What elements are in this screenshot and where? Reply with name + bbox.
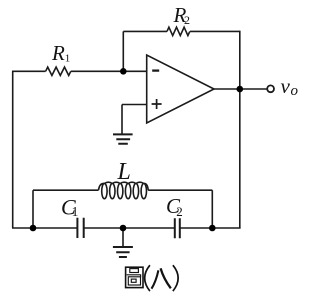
ground op-amp — [113, 134, 133, 143]
node bottom right junction — [209, 225, 216, 232]
wire bottom segment 2 — [84, 227, 175, 229]
node bottom left junction — [30, 225, 37, 232]
wire R2 right segment — [190, 30, 240, 32]
svg-text:1: 1 — [72, 204, 79, 219]
svg-text:1: 1 — [65, 52, 71, 64]
output terminal circle — [267, 85, 274, 92]
wire top-left horizontal to R1 — [12, 70, 46, 72]
wire L branch left vertical — [32, 190, 34, 228]
capacitor C2 — [175, 218, 180, 238]
op-amp minus sign — [152, 69, 159, 71]
node inverting input junction — [120, 68, 127, 75]
svg-text:o: o — [291, 83, 299, 99]
wire op-amp output — [214, 88, 267, 90]
caption glyph 圖 — [126, 267, 143, 287]
wire riser node A to R2 — [122, 31, 124, 71]
caption glyph 八 — [152, 270, 159, 288]
resistor R1 — [46, 67, 71, 75]
ground bottom — [113, 247, 133, 257]
capacitor C1 — [77, 218, 83, 238]
svg-text:2: 2 — [176, 204, 183, 219]
svg-text:L: L — [117, 159, 131, 185]
wire bottom segment 1 — [12, 227, 77, 229]
node bottom center junction — [120, 225, 127, 232]
caption paren left — [145, 265, 150, 291]
wire riser to op-amp ground — [121, 105, 123, 135]
wire R2 left segment — [123, 30, 167, 32]
svg-text:v: v — [281, 74, 291, 98]
wire bottom segment 3 — [180, 227, 241, 229]
svg-text:2: 2 — [184, 13, 190, 27]
op-amp U1 — [147, 55, 214, 123]
node output junction — [237, 86, 244, 93]
wire noninverting input — [122, 104, 147, 106]
wire right vertical — [239, 31, 241, 228]
wire L branch right vertical — [211, 190, 213, 228]
wire riser to bottom ground — [122, 228, 124, 247]
wire R1 to inverting input — [71, 70, 147, 72]
op-amp plus sign — [152, 99, 162, 109]
svg-text:R: R — [51, 41, 65, 65]
inductor L loops — [102, 184, 107, 199]
wire L branch left horizontal — [33, 189, 99, 191]
caption paren right — [173, 265, 178, 291]
inductor L — [99, 182, 149, 190]
resistor R2 — [167, 27, 190, 35]
wire left vertical — [12, 71, 14, 228]
wire L branch right horizontal — [148, 189, 212, 191]
